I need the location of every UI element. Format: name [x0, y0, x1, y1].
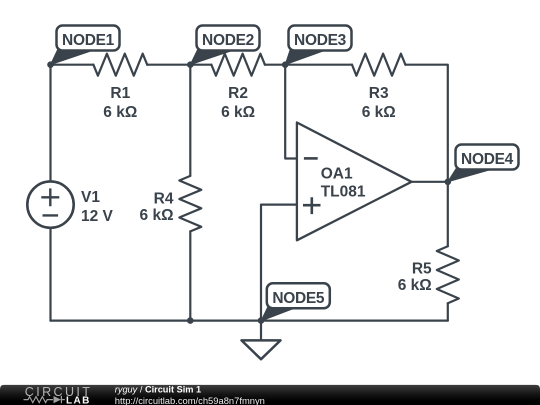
svg-text:6 kΩ: 6 kΩ: [398, 277, 432, 294]
label R2 value: [221, 85, 255, 121]
resistor R4: [179, 176, 201, 232]
svg-text:TL081: TL081: [321, 183, 366, 200]
ground symbol: [242, 340, 281, 359]
junction node1: [47, 61, 54, 68]
wire: R5 bottom to bottom rail: [447, 303, 449, 320]
junction node3: [282, 61, 289, 68]
footer bar: [0, 385, 540, 405]
svg-text:12 V: 12 V: [81, 208, 114, 225]
svg-text:ryguy / Circuit Sim 1: ryguy / Circuit Sim 1: [115, 385, 201, 395]
resistor R3: [352, 54, 405, 76]
junction node2: [187, 61, 194, 68]
node label callout NODE3: [285, 26, 351, 65]
svg-text:6 kΩ: 6 kΩ: [103, 104, 137, 121]
resistor R1: [93, 54, 147, 76]
svg-text:NODE1: NODE1: [62, 32, 115, 49]
wire: op-amp non-inverting input to ground branch: [261, 205, 297, 321]
op-amp OA1: [297, 123, 412, 241]
CircuitLab logo resistor-diode squiggle: [24, 396, 65, 403]
node label callout NODE2: [190, 26, 259, 65]
svg-text:NODE4: NODE4: [461, 151, 514, 168]
svg-text:R3: R3: [369, 85, 389, 102]
wire top: R1 to node2: [147, 64, 211, 66]
svg-text:R4: R4: [154, 191, 174, 208]
wire top right corner down to node4: [405, 65, 447, 182]
wire: node4 down to R5: [447, 182, 449, 246]
svg-text:R5: R5: [412, 260, 432, 277]
wire top: R2 to node3: [265, 64, 352, 66]
resistor R5: [437, 246, 459, 303]
label V1 value: [81, 189, 114, 225]
svg-text:http://circuitlab.com/ch59a8n7: http://circuitlab.com/ch59a8n7fmnyn: [115, 395, 265, 405]
svg-text:R1: R1: [110, 85, 130, 102]
wire left: node1 down to V1 top: [49, 65, 51, 182]
svg-text:R2: R2: [228, 85, 248, 102]
wire bottom rail: [51, 320, 448, 322]
wire: ground stem: [260, 321, 262, 341]
wire: R4 bottom to bottom rail: [189, 231, 191, 320]
label R4 value: [140, 191, 174, 225]
label R1 value: [103, 85, 137, 121]
svg-text:LAB: LAB: [66, 395, 91, 405]
wire: node2 down to R4: [189, 65, 191, 176]
svg-text:NODE2: NODE2: [202, 32, 254, 49]
wire: node3 down and to op-amp inverting input: [285, 65, 297, 159]
wire top: node1 to R1: [51, 64, 94, 66]
wire: op-amp output to node4: [412, 181, 448, 183]
svg-text:NODE5: NODE5: [272, 290, 325, 307]
svg-text:V1: V1: [81, 189, 100, 206]
wire left: V1 bottom down to bottom rail: [49, 228, 51, 321]
junction R4 bottom: [187, 317, 194, 324]
junction node4: [445, 179, 452, 186]
label R5 value: [398, 260, 432, 294]
node label callout NODE5: [261, 283, 330, 321]
svg-text:6 kΩ: 6 kΩ: [221, 104, 255, 121]
svg-text:6 kΩ: 6 kΩ: [140, 207, 174, 224]
voltage source V1: [27, 181, 73, 227]
svg-text:6 kΩ: 6 kΩ: [362, 104, 396, 121]
svg-text:OA1: OA1: [321, 166, 353, 183]
label R3 value: [362, 85, 396, 121]
svg-text:NODE3: NODE3: [294, 32, 347, 49]
resistor R2: [211, 54, 265, 76]
junction node5 ground: [258, 317, 265, 324]
node label callout NODE1: [51, 26, 120, 65]
node label callout NODE4: [448, 145, 519, 182]
